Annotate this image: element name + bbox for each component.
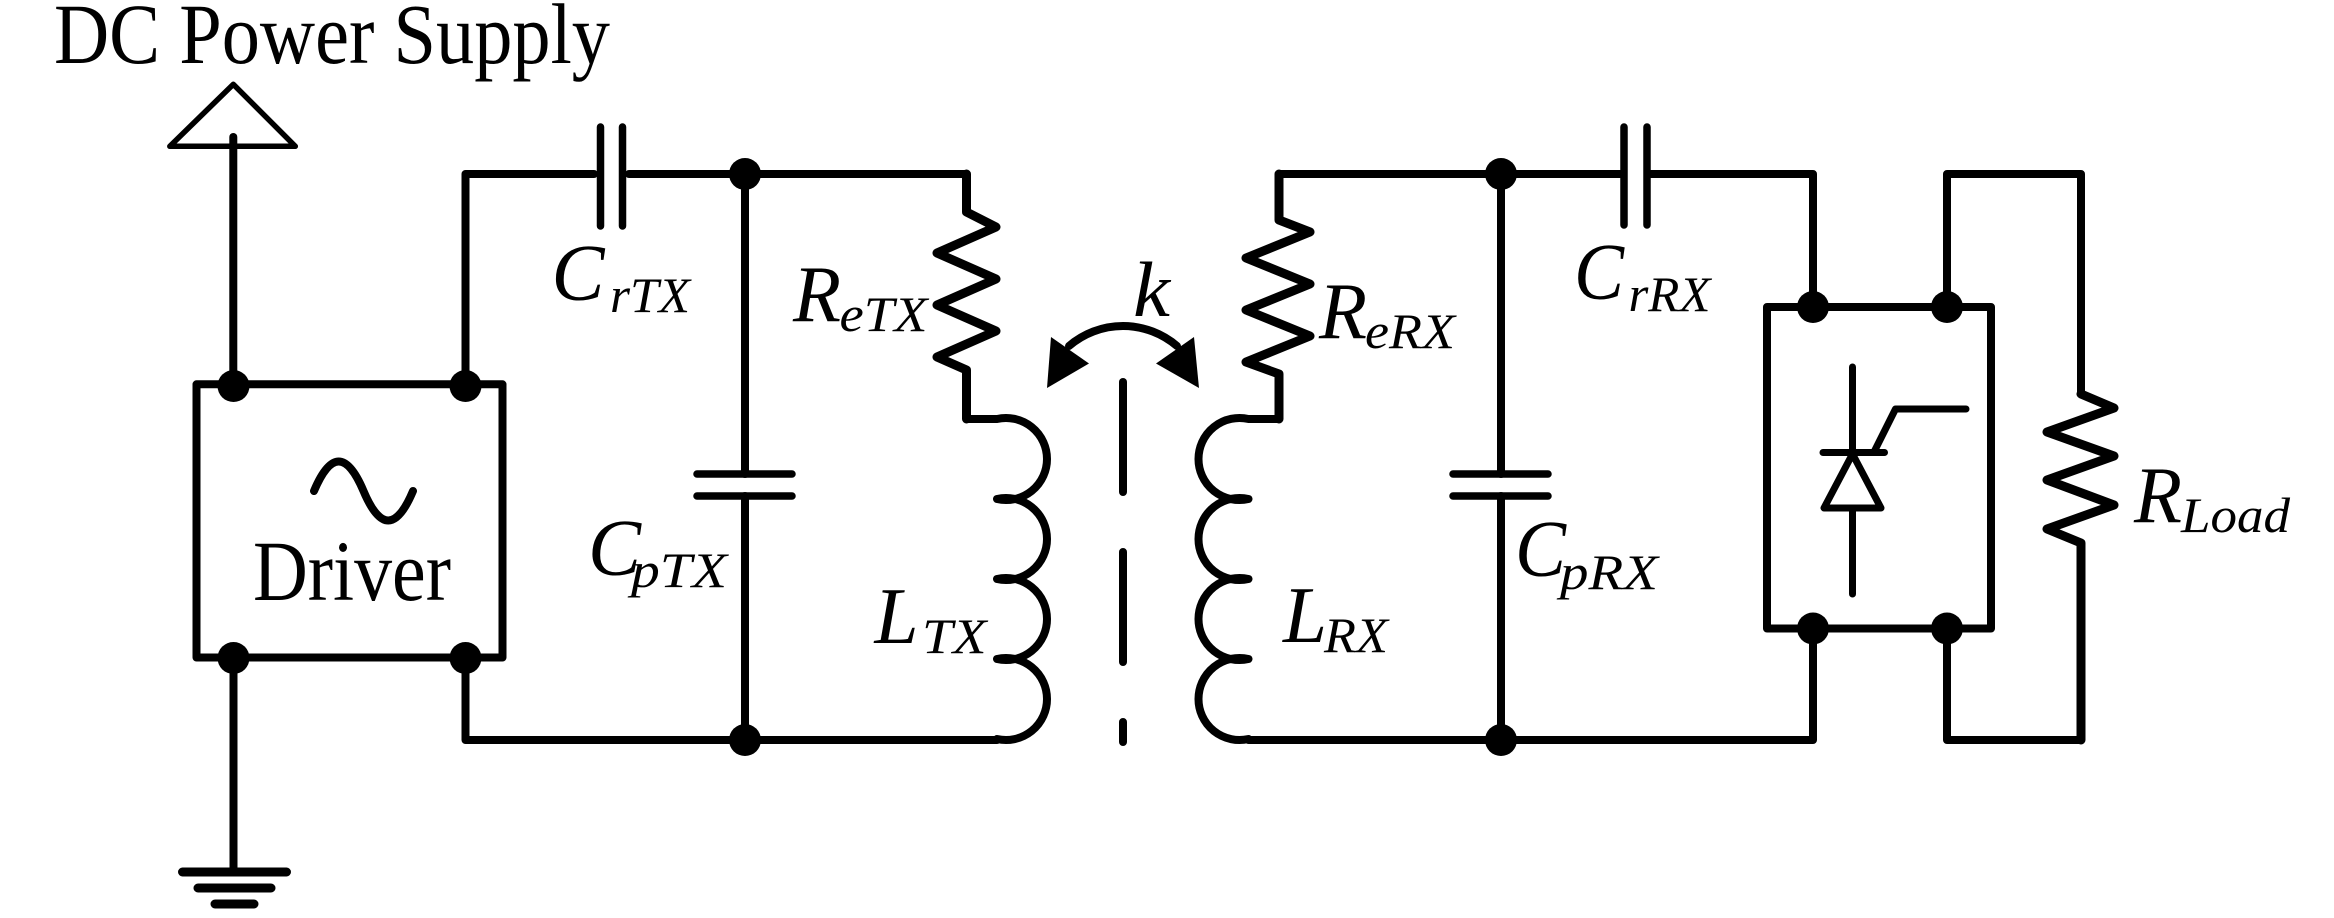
node driver bottom-right xyxy=(450,642,482,674)
wire C_rTX to node A xyxy=(629,170,967,178)
wire rectifier top-right to R_Load top xyxy=(1947,174,2081,394)
thyristor cathode stub xyxy=(1849,367,1856,453)
coupling dashed line xyxy=(1119,382,1127,742)
capacitor C_pRX plates xyxy=(1453,474,1548,496)
inductor L_TX xyxy=(967,418,1048,740)
svg-text:Load: Load xyxy=(2180,487,2291,543)
DC power supply symbol (triangle) xyxy=(170,84,295,146)
wire C_pRX branch top xyxy=(1497,174,1505,474)
ground symbol xyxy=(183,872,287,904)
node driver top-left xyxy=(218,370,250,402)
bottom rail RX xyxy=(1249,629,1814,741)
resistor R_eTX xyxy=(937,174,996,419)
rectifier box U2 xyxy=(1767,307,1991,629)
bottom rail TX xyxy=(466,658,998,740)
svg-text:R: R xyxy=(2133,450,2182,540)
thyristor anode stub xyxy=(1849,508,1856,594)
node rectifier bottom-right xyxy=(1931,613,1963,645)
capacitor C_pTX plates xyxy=(697,474,792,496)
node TX bottom xyxy=(729,724,761,756)
node driver top-right xyxy=(450,370,482,402)
wire supply to driver xyxy=(229,137,237,386)
svg-text:Driver: Driver xyxy=(253,523,451,619)
svg-text:RX: RX xyxy=(1323,607,1391,663)
svg-text:eRX: eRX xyxy=(1365,303,1458,359)
capacitor C_rRX plates xyxy=(1624,127,1647,225)
svg-text:k: k xyxy=(1133,246,1171,333)
node rectifier top-right xyxy=(1931,291,1963,323)
svg-text:DC Power Supply: DC Power Supply xyxy=(54,0,610,82)
svg-text:TX: TX xyxy=(922,608,989,664)
svg-text:R: R xyxy=(1318,266,1367,356)
thyristor triangle xyxy=(1824,454,1881,508)
wire driver bottom-left to ground xyxy=(230,658,238,872)
capacitor C_rTX plates xyxy=(601,127,623,226)
thyristor cathode bar xyxy=(1823,449,1885,456)
wire C_rRX to rectifier xyxy=(1651,174,1813,307)
wire R_Load bottom to rectifier bottom-right xyxy=(1947,629,2081,741)
svg-text:pRX: pRX xyxy=(1557,544,1661,600)
resistor R_eRX xyxy=(1246,174,1310,419)
wire driver top-right up to top rail xyxy=(466,174,595,386)
wire C_pRX branch bottom xyxy=(1497,496,1505,740)
node RX bottom xyxy=(1485,724,1517,756)
node rectifier bottom-left xyxy=(1797,613,1829,645)
node driver bottom-left xyxy=(218,642,250,674)
svg-text:R: R xyxy=(792,249,841,339)
wire C_pTX branch bottom xyxy=(741,496,749,740)
svg-text:pTX: pTX xyxy=(628,542,730,598)
top rail RX left xyxy=(1279,170,1620,178)
wire C_pTX branch top xyxy=(741,174,749,474)
node TX top xyxy=(729,158,761,190)
inductor L_RX xyxy=(1198,418,1279,740)
Driver box U1 xyxy=(197,384,503,657)
arrow head left of k xyxy=(1047,337,1089,388)
node rectifier top-left xyxy=(1797,291,1829,323)
svg-text:rRX: rRX xyxy=(1629,266,1713,322)
coupling arrow arc xyxy=(1069,326,1177,346)
svg-text:eTX: eTX xyxy=(840,286,931,342)
arrow head right of k xyxy=(1156,337,1199,388)
thyristor gate xyxy=(1875,409,1967,451)
resistor R_Load xyxy=(2047,394,2114,740)
svg-text:rTX: rTX xyxy=(610,267,693,323)
svg-text:C: C xyxy=(1574,227,1625,317)
svg-text:C: C xyxy=(552,228,606,318)
svg-text:L: L xyxy=(874,571,919,661)
svg-text:L: L xyxy=(1282,570,1327,660)
node RX top xyxy=(1485,158,1517,190)
sine symbol inside driver xyxy=(314,462,413,521)
